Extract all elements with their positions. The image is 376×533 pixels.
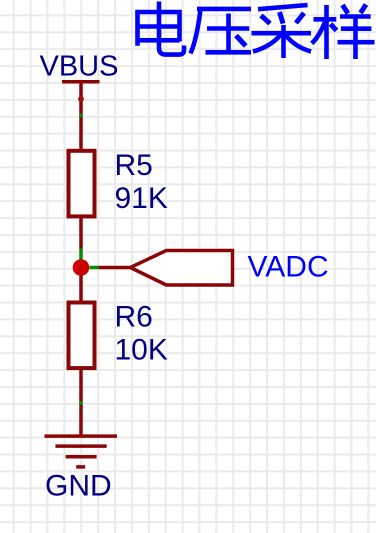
- svg-text:91K: 91K: [115, 182, 168, 215]
- svg-text:VADC: VADC: [248, 251, 329, 284]
- svg-text:VBUS: VBUS: [40, 50, 119, 82]
- svg-text:10K: 10K: [115, 334, 168, 367]
- svg-text:R5: R5: [115, 149, 153, 182]
- svg-text:GND: GND: [45, 470, 112, 503]
- svg-text:R6: R6: [115, 301, 153, 334]
